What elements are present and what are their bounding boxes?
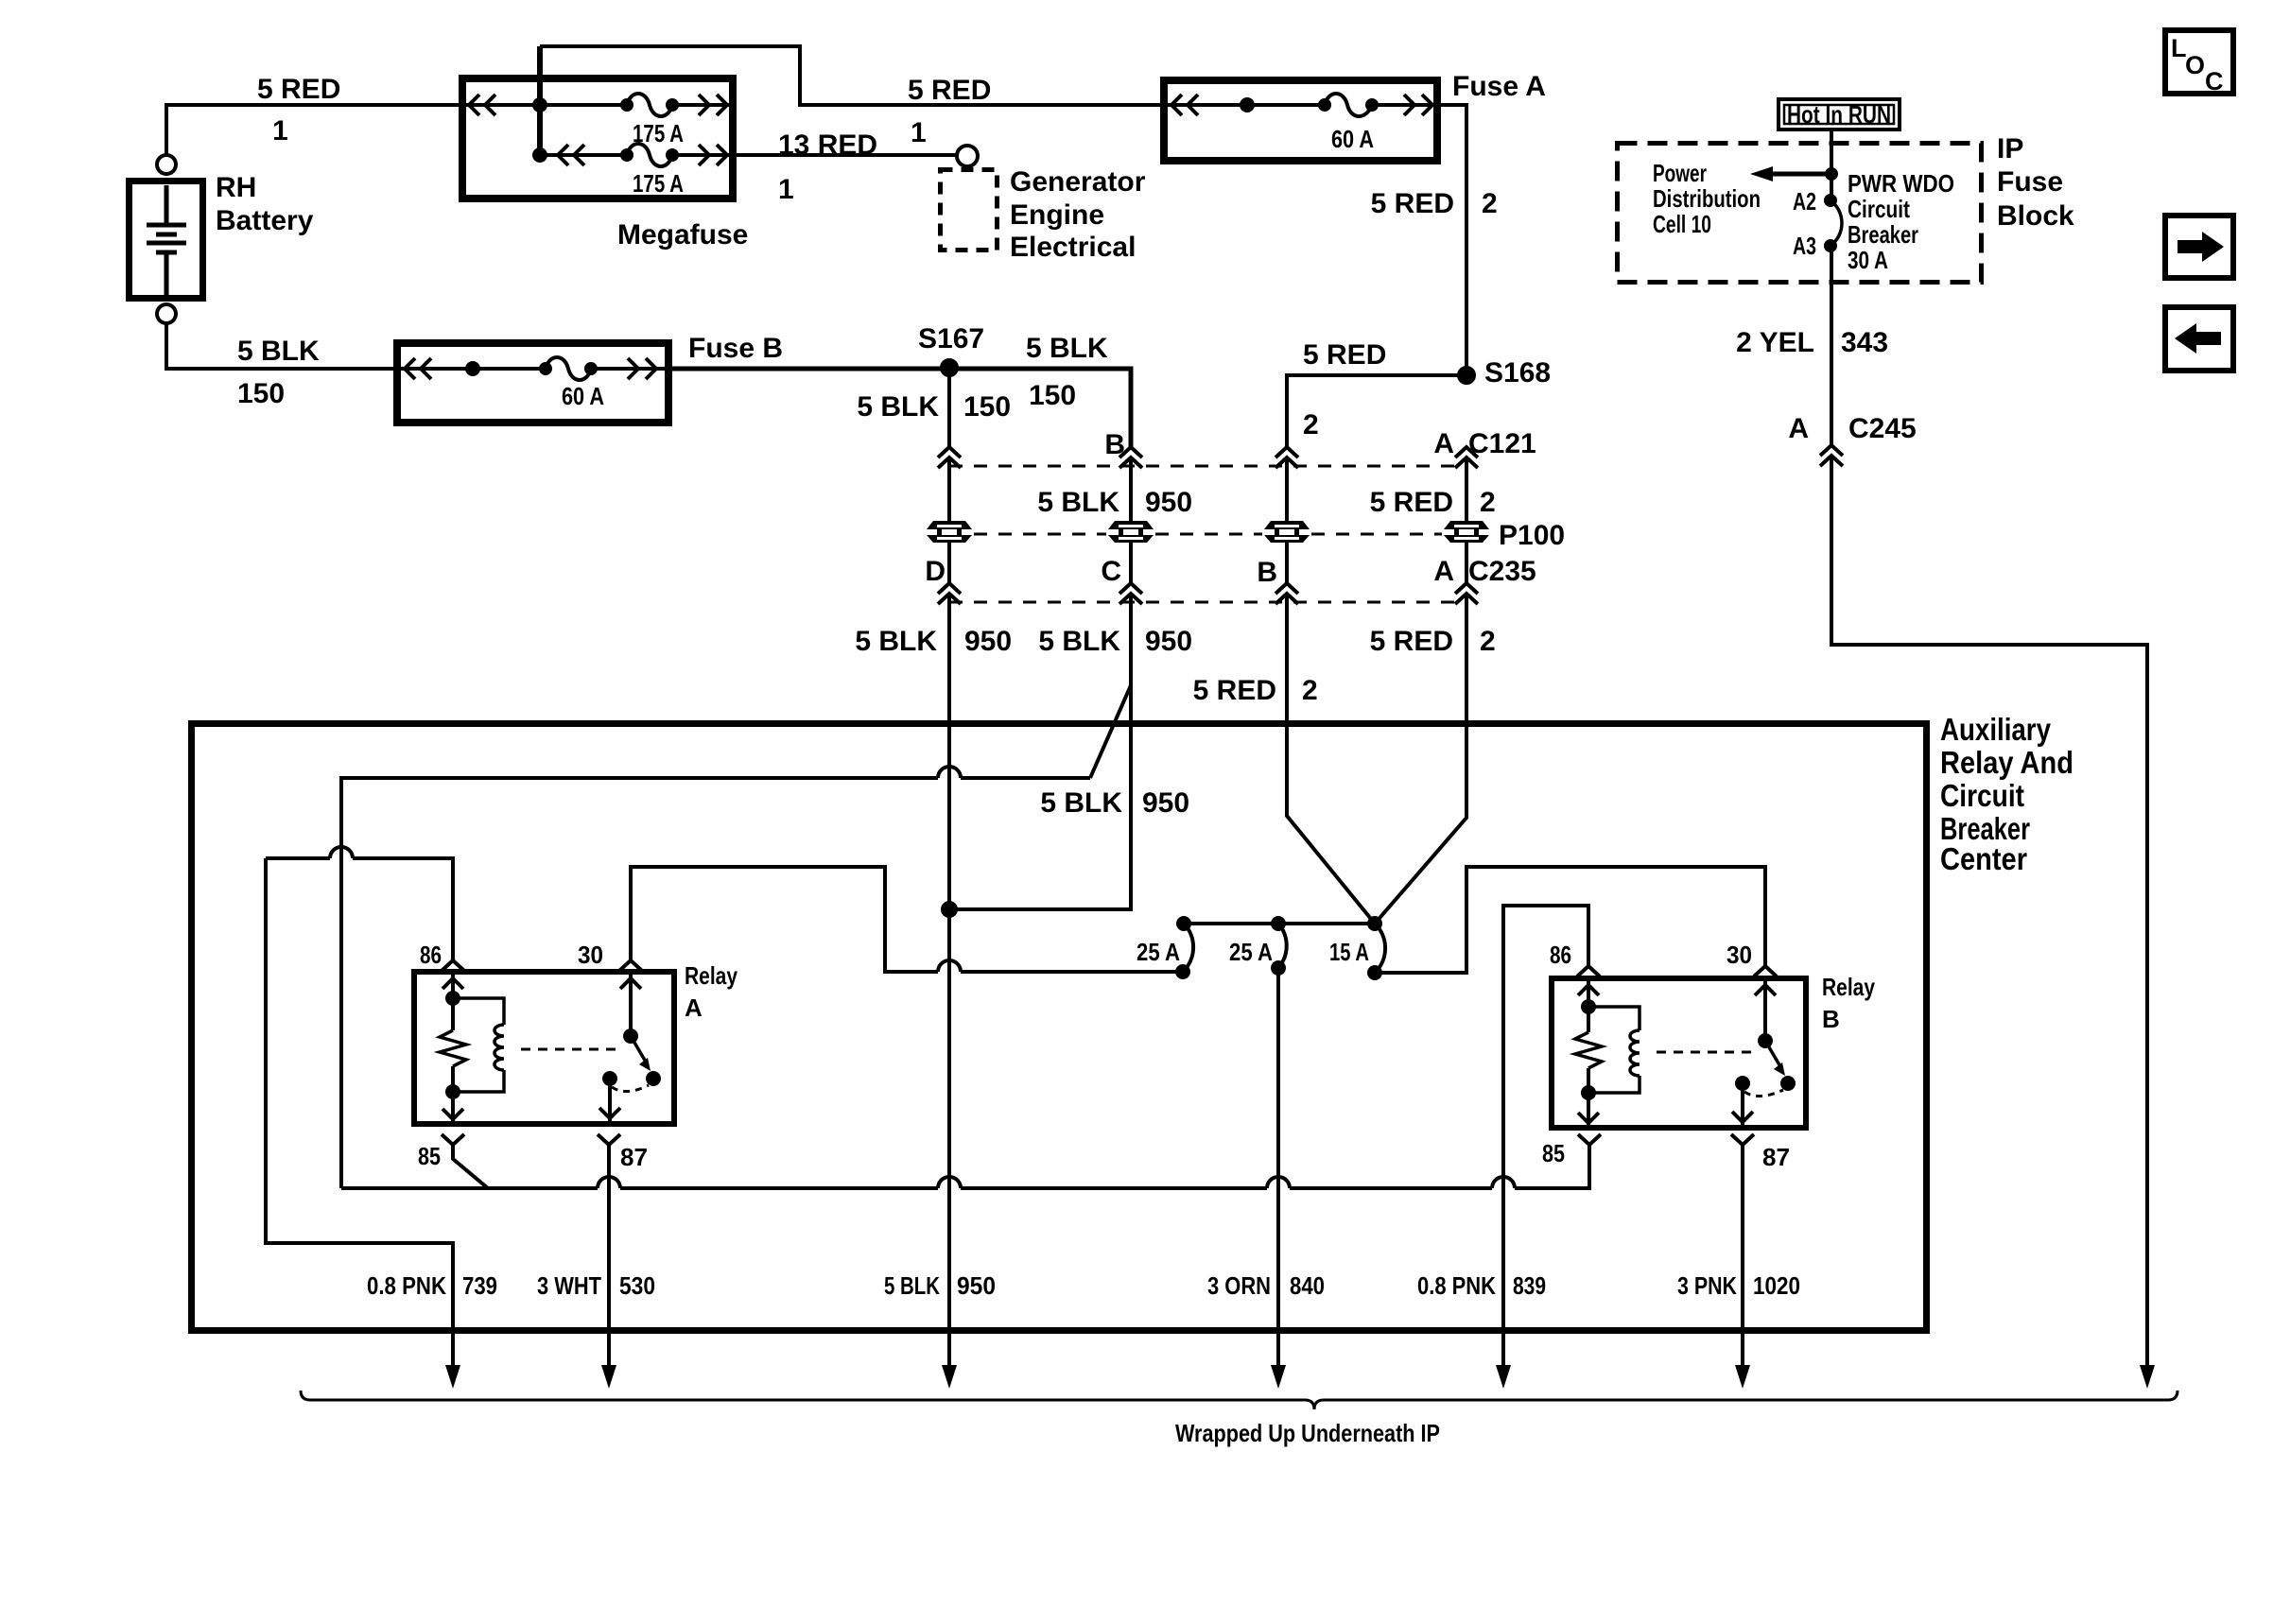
svg-text:87: 87 [620,1143,648,1171]
relay B coil [1588,1007,1640,1093]
relay B pin 86 chevron [1577,966,1600,976]
fuse B element 60 A [393,367,672,371]
connector C121 chevron pin B [1119,447,1142,468]
svg-text:Electrical: Electrical [1010,232,1136,263]
svg-text:5 RED: 5 RED [1303,339,1386,371]
node tap to power distribution [1827,169,1836,179]
svg-text:25 A: 25 A [1136,938,1180,966]
svg-text:Relay: Relay [1822,973,1875,1001]
svg-text:Battery: Battery [216,205,314,236]
wire S168 branch to C121 pin B column [1287,375,1466,447]
svg-text:1020: 1020 [1753,1271,1800,1300]
wire col B P100 to C235 [1285,543,1289,584]
svg-text:5 BLK: 5 BLK [1037,487,1119,518]
svg-text:150: 150 [963,391,1011,423]
generator terminal circle [957,146,978,166]
svg-text:5 RED: 5 RED [908,75,991,106]
auxiliary relay and circuit breaker center box [192,724,1927,1331]
svg-text:Engine: Engine [1010,199,1104,231]
svg-text:C235: C235 [1468,556,1536,587]
svg-text:13 RED: 13 RED [778,130,877,161]
svg-text:5 RED: 5 RED [1193,675,1276,706]
wire col B C121 to P100 [1285,459,1289,521]
svg-text:Distribution: Distribution [1653,184,1761,213]
svg-text:Circuit: Circuit [1848,195,1910,223]
svg-text:150: 150 [237,378,285,409]
svg-text:Power: Power [1653,159,1707,187]
svg-text:Megafuse: Megafuse [617,219,748,251]
grommet P100 col A [1444,521,1489,543]
brace Wrapped Up Underneath IP [301,1391,2178,1409]
relay A switch [629,972,633,1036]
svg-text:150: 150 [1029,380,1076,411]
relay B switch [1763,978,1767,1041]
forward arrow box [2165,216,2233,278]
svg-text:5 RED: 5 RED [1371,188,1454,219]
svg-text:Fuse B: Fuse B [688,333,783,364]
grommet P100 col B [1264,521,1310,543]
svg-text:5 BLK: 5 BLK [857,391,939,423]
svg-text:P100: P100 [1499,520,1565,551]
relay A resistor [440,1030,466,1066]
wire fuse A output down to S168 (5 RED 2) [1441,105,1466,375]
svg-text:343: 343 [1841,327,1888,358]
svg-text:Fuse A: Fuse A [1452,71,1546,102]
svg-text:A: A [1433,556,1454,587]
relay A coil branch [451,972,455,1127]
node 25A-1 top [1178,918,1189,929]
svg-text:A: A [1788,413,1809,444]
wire relay B 87 down to 3 PNK output [1741,1145,1744,1367]
svg-text:Block: Block [1997,200,2074,232]
svg-text:3 ORN: 3 ORN [1207,1271,1271,1300]
wire col A C121 to P100 [1465,459,1468,521]
svg-text:175 A: 175 A [633,169,684,198]
connector C235 chevron pin A [1455,583,1478,604]
output arrow far right [2140,1365,2155,1389]
svg-text:530: 530 [619,1271,655,1300]
hop over 0.8 PNK 839 column [1492,1177,1515,1188]
wire relay B 86 feed from 0.8 PNK 839 [1503,906,1588,1367]
svg-text:Circuit: Circuit [1940,778,2024,813]
svg-text:Center: Center [1940,841,2027,876]
connector C235 chevron pin C [1119,583,1142,604]
svg-text:86: 86 [1550,941,1571,969]
circuit breaker 15 A [1375,924,1385,973]
node S168 [1459,368,1474,383]
svg-text:1: 1 [272,115,288,147]
svg-text:D: D [925,556,946,587]
svg-text:30: 30 [578,941,603,969]
svg-text:Cell 10: Cell 10 [1653,210,1711,238]
svg-text:A3: A3 [1793,232,1816,260]
svg-text:C245: C245 [1848,413,1917,444]
svg-text:5 BLK: 5 BLK [855,626,937,657]
connector C121 chevron col [1275,447,1298,468]
connector C235 chevron pin B [1275,583,1298,604]
svg-text:Wrapped Up Underneath IP: Wrapped Up Underneath IP [1175,1419,1440,1447]
connector P100 dashed line [974,533,1442,536]
svg-text:2: 2 [1482,188,1498,219]
fuse B box [397,343,668,423]
relay B box [1552,978,1806,1128]
wire 25A-1 bottom to relay A 30 with hop over col D [631,867,1183,972]
svg-text:15 A: 15 A [1329,938,1369,966]
svg-text:0.8 PNK: 0.8 PNK [1417,1271,1496,1300]
svg-text:25 A: 25 A [1229,938,1273,966]
svg-text:85: 85 [418,1142,441,1170]
IP fuse block dashed box [1618,144,1982,283]
svg-text:3 PNK: 3 PNK [1677,1271,1737,1300]
svg-text:840: 840 [1290,1271,1325,1300]
svg-text:950: 950 [1145,626,1192,657]
svg-text:30 A: 30 A [1848,246,1888,274]
wire col B diagonal into 15A [1287,596,1375,924]
wire relay A 87 down to 3 WHT output [607,1145,611,1367]
svg-text:Breaker: Breaker [1848,220,1918,249]
circuit breaker 25 A (1) [1183,924,1193,972]
svg-text:5 BLK: 5 BLK [1038,626,1120,657]
wire ground bus y823 with hop over col D [341,767,1090,1188]
svg-text:950: 950 [957,1271,996,1300]
svg-text:739: 739 [462,1271,497,1300]
svg-text:5 BLK: 5 BLK [1040,787,1122,819]
svg-text:950: 950 [1142,787,1189,819]
wire 0.8 PNK 739 route [266,858,453,1367]
battery negative terminal circle [157,304,176,323]
svg-text:IP: IP [1997,133,2023,164]
wire hot in run into fuse block [1830,130,1833,200]
battery positive terminal circle [157,155,176,174]
wire col C C121 to P100 [1129,459,1133,521]
generator engine electrical dashed box [941,170,998,251]
connector C245 chevrons [1820,445,1843,466]
svg-text:2 YEL: 2 YEL [1736,327,1814,358]
wire arrow to power distribution [1773,172,1831,177]
svg-text:A: A [1433,428,1454,459]
svg-text:0.8 PNK: 0.8 PNK [367,1271,446,1300]
svg-text:5 RED: 5 RED [257,74,340,105]
svg-text:60 A: 60 A [562,382,604,410]
svg-text:2: 2 [1303,409,1319,441]
wire col D C121 to P100 [947,459,951,521]
connector C121 chevron pin A [1455,447,1478,468]
connector C235 chevron pin D [938,583,961,604]
wire 85 bus y1257 with hops [341,1145,1589,1188]
output arrow 0.8 PNK 739 [445,1365,460,1389]
svg-text:5 BLK: 5 BLK [1026,333,1108,364]
output arrow 0.8 PNK 839 [1496,1365,1511,1389]
svg-text:30: 30 [1726,941,1752,969]
wire 13 RED to generator [737,153,957,157]
wire col C down and over to col D junction [949,596,1131,909]
svg-text:5 RED: 5 RED [1370,487,1453,518]
relay B pin 85 chevron [1578,1134,1601,1145]
wire battery- to Fuse B (5 BLK 150) [166,323,393,369]
svg-text:839: 839 [1513,1271,1546,1300]
svg-text:C: C [2205,67,2224,95]
svg-text:3 WHT: 3 WHT [537,1271,601,1300]
wire fuse B to S167 and down to C121 pin B [672,369,1131,447]
svg-text:87: 87 [1762,1143,1790,1171]
wire col C P100 to C235 [1129,543,1133,584]
svg-text:B: B [1822,1005,1840,1033]
relay A pin 87 chevron [598,1134,620,1145]
relay A box [414,972,674,1124]
wire diagonal branch from col C to ground bus [1090,685,1131,778]
LOC reference box [2165,30,2233,94]
svg-text:5 BLK: 5 BLK [884,1271,940,1300]
output arrow 3 WHT 530 [601,1365,616,1389]
wire 25A-2 bottom down to 3 ORN output [1276,968,1280,1367]
svg-text:1: 1 [911,117,927,148]
wire breaker top bus [1184,922,1375,925]
node 25A-2 top [1273,918,1284,929]
wire relay A 85 to 85 bus diagonal [453,1145,488,1188]
wire 2 YEL 343 down to C245 [1830,246,1833,445]
fuse A box [1164,80,1437,161]
connector C121 chevron col D [938,447,961,468]
megafuse box [462,78,733,199]
wire megafuse top jump to Fuse A feed [540,46,1160,105]
back arrow box [2165,307,2233,371]
output arrow 3 ORN 840 [1271,1365,1286,1389]
circuit breaker 25 A (2) [1278,924,1287,968]
wire megafuse internal vertical [537,46,543,155]
svg-text:86: 86 [420,941,442,969]
svg-text:Hot In RUN: Hot In RUN [1787,100,1891,129]
relay A coil [453,998,504,1092]
node junction col D / col C [943,903,956,916]
node 15A top [1369,918,1380,929]
hop over col D [938,1177,961,1188]
svg-text:RH: RH [216,172,256,203]
svg-text:85: 85 [1542,1139,1565,1167]
megafuse fuse row 2 175 A [540,153,737,157]
node S167 [942,360,957,375]
svg-text:O: O [2185,51,2205,79]
wire col D P100 to C235 [947,543,951,584]
svg-text:Relay And: Relay And [1940,745,2073,780]
svg-text:A: A [685,993,703,1022]
svg-text:5 BLK: 5 BLK [237,336,320,367]
wire S167 branch down (5 BLK 150) [947,368,951,447]
relay A pin 30 chevron [619,960,642,971]
battery RH Battery box [130,181,203,299]
svg-text:B: B [1104,429,1125,460]
svg-text:Auxiliary: Auxiliary [1940,712,2052,747]
svg-text:2: 2 [1480,487,1496,518]
hot in run box [1778,99,1900,130]
relay A pin 86 chevron [442,960,464,971]
svg-text:PWR WDO: PWR WDO [1848,169,1954,198]
output arrow 3 PNK 1020 [1735,1365,1750,1389]
relay A dashed actuator link [521,1048,616,1051]
connector C235 dashed line [949,601,1466,604]
connector C121 dashed line [949,465,1466,468]
wire 15A bottom to relay B 30 [1375,867,1765,973]
svg-text:950: 950 [964,626,1012,657]
fuse A element 60 A [1160,103,1441,107]
battery cell symbol [147,185,186,295]
svg-text:5 RED: 5 RED [1370,626,1453,657]
grommet P100 col C [1108,521,1154,543]
svg-text:B: B [1257,557,1277,588]
svg-text:2: 2 [1480,626,1496,657]
wire battery+ to Megafuse (5 RED 1) [166,105,459,155]
svg-text:S167: S167 [918,323,984,354]
wire col A diagonal into 15A [1375,596,1466,924]
wire 86A feed y908 with hop over x361 [266,847,453,960]
svg-text:950: 950 [1145,487,1192,518]
svg-text:Generator: Generator [1010,166,1146,198]
svg-text:1: 1 [778,174,794,205]
megafuse fuse row 1 175 A [459,103,729,107]
svg-text:Relay: Relay [685,961,737,990]
svg-text:2: 2 [1302,675,1318,706]
svg-text:C121: C121 [1468,428,1536,459]
hop over 3 ORN column [1267,1177,1290,1188]
svg-text:A2: A2 [1793,187,1816,216]
relay B pin 87 chevron [1731,1134,1754,1145]
relay B pin 30 chevron [1754,966,1777,976]
grommet P100 col D [927,521,972,543]
wire col D (5 BLK 950) down through aux box to output [947,596,951,1367]
svg-text:60 A: 60 A [1331,125,1374,153]
svg-text:S168: S168 [1484,357,1551,389]
hop over 87A column [598,1177,620,1188]
relay B coil branch [1587,978,1590,1131]
wire col A P100 to C235 [1465,543,1468,584]
relay B resistor [1575,1032,1602,1068]
PWR WDO circuit breaker 30 A [1826,196,1835,205]
wire C245 to far right output [1831,458,2147,1367]
relay A pin 85 chevron [442,1134,464,1145]
svg-text:C: C [1101,556,1121,587]
svg-text:Fuse: Fuse [1997,166,2063,198]
relay B dashed actuator link [1657,1051,1751,1054]
output arrow 5 BLK 950 [942,1365,957,1389]
